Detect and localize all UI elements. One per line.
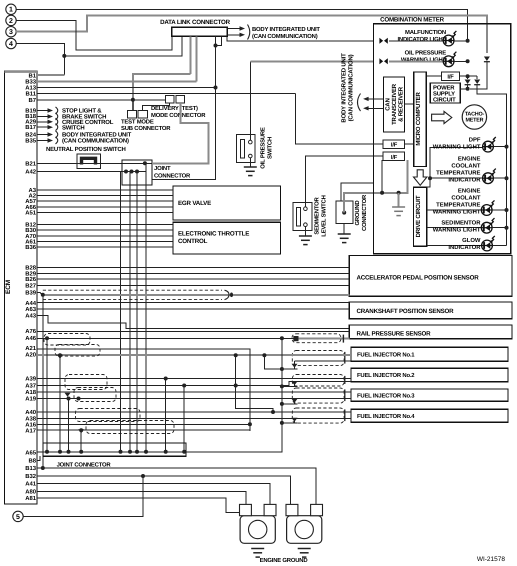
engine ground lug left	[240, 516, 275, 544]
wire A13	[37, 87, 216, 89]
svg-text:ACCELERATOR PEDAL POSITION SEN: ACCELERATOR PEDAL POSITION SENSOR	[357, 275, 480, 282]
svg-text:B13: B13	[25, 465, 37, 472]
svg-text:A51: A51	[25, 210, 37, 217]
fuel injector box No.4	[351, 409, 508, 422]
left shield ovals	[44, 334, 90, 346]
svg-text:SWITCH: SWITCH	[267, 137, 274, 159]
svg-text:SUPPLY: SUPPLY	[433, 90, 455, 97]
svg-text:MICRO COMPUTER: MICRO COMPUTER	[415, 92, 422, 146]
svg-text:I/F: I/F	[447, 74, 454, 81]
node 1	[6, 4, 16, 14]
ground connector	[336, 201, 353, 223]
fuel injector box No.2	[351, 368, 508, 381]
IF2 box	[383, 152, 405, 160]
wire oil switch to meter	[249, 61, 251, 140]
wire B13	[37, 468, 316, 504]
svg-text:5: 5	[16, 514, 20, 521]
svg-text:B24: B24	[25, 132, 37, 139]
CAN left arrows	[367, 98, 383, 100]
svg-text:B27: B27	[25, 283, 37, 290]
wire A81	[37, 498, 240, 513]
wire B7 drop to test connector	[132, 100, 134, 111]
wire A19	[37, 398, 351, 400]
svg-text:A39: A39	[25, 376, 37, 383]
svg-text:(CAN COMMUNICATION): (CAN COMMUNICATION)	[62, 138, 129, 145]
svg-text:SEDIMENTOR: SEDIMENTOR	[314, 196, 321, 234]
gray link DLC to test connector	[133, 74, 191, 111]
wire gc to meter edge	[341, 183, 373, 201]
electronic throttle control box	[173, 222, 281, 254]
svg-text:FUEL INJECTOR No.1: FUEL INJECTOR No.1	[357, 351, 415, 358]
svg-text:INDICATOR: INDICATOR	[448, 177, 481, 184]
svg-text:OIL PRESSURE: OIL PRESSURE	[260, 127, 267, 169]
wire B8	[37, 456, 40, 460]
svg-text:ENGINE: ENGINE	[458, 188, 481, 195]
ECM U1	[5, 71, 38, 504]
wire test to delivery loop	[143, 103, 170, 111]
wire A80	[37, 491, 246, 504]
A21 drop	[37, 349, 250, 431]
wire B30	[37, 229, 173, 231]
svg-text:COOLANT: COOLANT	[451, 163, 481, 170]
wire A51	[37, 212, 173, 214]
svg-text:A44: A44	[25, 300, 37, 307]
svg-text:BODY INTEGRATED UNIT: BODY INTEGRATED UNIT	[252, 26, 320, 33]
shield drain No.4	[282, 422, 298, 424]
wire gc to IF2 gray	[344, 160, 407, 212]
svg-text:COOLANT: COOLANT	[451, 195, 481, 202]
hanging ground gray	[398, 193, 400, 207]
svg-text:A37: A37	[25, 383, 37, 390]
svg-text:COMBINATION METER: COMBINATION METER	[380, 16, 445, 23]
wire B11 to IF1	[296, 94, 384, 144]
wire B11 to IF	[37, 93, 296, 95]
wire B36	[37, 246, 173, 248]
accelerator pedal position sensor	[349, 256, 512, 297]
svg-text:B26: B26	[25, 276, 37, 283]
K-line from DLC to J1	[216, 36, 222, 45]
svg-text:SUB CONNECTOR: SUB CONNECTOR	[121, 125, 171, 132]
wire A17	[37, 429, 250, 431]
diode D2 on wire3	[484, 57, 490, 62]
svg-text:CONTROL: CONTROL	[178, 238, 208, 245]
wire A41	[37, 484, 270, 505]
wire A61	[37, 241, 173, 243]
svg-text:2: 2	[9, 18, 13, 25]
svg-text:A46: A46	[25, 335, 37, 342]
wire A18	[37, 391, 351, 393]
svg-text:DRIVE CIRCUIT: DRIVE CIRCUIT	[415, 195, 422, 237]
svg-text:I/F: I/F	[391, 154, 398, 161]
wire to MIL from DLC	[227, 36, 373, 41]
wire B1	[37, 74, 64, 76]
stop light brake switch arrows B19 B18	[37, 110, 49, 112]
svg-text:TEST MODE: TEST MODE	[121, 119, 154, 126]
svg-text:CAN: CAN	[385, 98, 392, 110]
svg-text:DELIVERY (TEST): DELIVERY (TEST)	[151, 105, 198, 112]
svg-text:A57: A57	[25, 198, 37, 205]
svg-text:TEMPERATURE: TEMPERATURE	[436, 202, 480, 209]
node 5	[13, 511, 23, 521]
wire B26	[37, 278, 349, 280]
wire 2 path	[16, 20, 172, 50]
A20 branch down	[236, 355, 273, 412]
svg-text:FUEL INJECTOR No.3: FUEL INJECTOR No.3	[357, 392, 415, 399]
wire A20 to injector1	[37, 354, 351, 356]
LED bus dots	[505, 145, 509, 149]
diode pair	[468, 75, 478, 77]
wire 5 feed	[23, 476, 143, 516]
svg-text:NEUTRAL POSITION SWITCH: NEUTRAL POSITION SWITCH	[46, 146, 126, 153]
drive circuit box	[414, 187, 427, 246]
svg-text:TEMPERATURE: TEMPERATURE	[436, 170, 480, 177]
delivery test mode connector	[165, 96, 173, 103]
svg-text:INDICATOR: INDICATOR	[448, 244, 481, 251]
svg-text:JOINT: JOINT	[154, 165, 171, 172]
svg-text:B17: B17	[25, 124, 37, 131]
LED warning light labels	[433, 136, 482, 251]
svg-text:B11: B11	[26, 91, 37, 98]
gc branch to IF2 left	[381, 160, 383, 193]
crankshaft position sensor	[349, 302, 512, 319]
svg-text:B36: B36	[25, 244, 37, 251]
rail pressure sensor	[349, 325, 512, 339]
svg-text:WARNING LIGHT: WARNING LIGHT	[401, 56, 447, 63]
svg-text:A65: A65	[25, 450, 37, 457]
svg-text:METER: METER	[465, 118, 483, 124]
sedimentor level switch S3	[293, 203, 312, 231]
oil pressure warning light	[379, 58, 387, 64]
shield drain No.2	[282, 385, 298, 387]
svg-text:RAIL PRESSURE SENSOR: RAIL PRESSURE SENSOR	[357, 331, 432, 338]
wire A39	[37, 378, 351, 380]
wire A38	[37, 418, 351, 420]
ECM pin labels	[25, 72, 37, 502]
svg-text:A76: A76	[25, 328, 37, 335]
wire A43 to rail sensor	[37, 315, 349, 328]
wire A37	[37, 381, 351, 385]
svg-text:FUEL INJECTOR No.2: FUEL INJECTOR No.2	[357, 372, 415, 379]
wire A2	[37, 195, 173, 197]
wire 4 drop to B1	[63, 56, 65, 75]
oil switch ground	[249, 158, 251, 167]
wire 1 to combination meter	[16, 9, 467, 41]
down arrow micro to drive	[414, 170, 427, 186]
svg-text:ELECTRONIC THROTTLE: ELECTRONIC THROTTLE	[178, 231, 249, 238]
sedimentor ground	[304, 227, 306, 237]
svg-text:DPF: DPF	[469, 136, 481, 143]
wire A63	[37, 308, 349, 310]
svg-text:ECM: ECM	[5, 280, 12, 294]
wire B28	[37, 267, 349, 269]
svg-text:B39: B39	[25, 290, 37, 297]
A20 branch to injector shield drain	[265, 355, 282, 369]
svg-text:B32: B32	[25, 473, 37, 480]
injector1 lower wire	[295, 360, 352, 362]
svg-text:A21: A21	[25, 345, 37, 352]
shield drain No.1	[282, 368, 298, 370]
svg-text:A19: A19	[25, 396, 37, 403]
node 3	[6, 27, 16, 37]
ground connector bottom ground	[343, 223, 345, 234]
svg-text:B33: B33	[25, 79, 37, 86]
wire B27	[37, 285, 349, 287]
CAN to micro	[405, 103, 414, 105]
svg-text:INDICATOR LIGHT: INDICATOR LIGHT	[398, 36, 447, 43]
svg-text:BODY INTEGRATED UNIT: BODY INTEGRATED UNIT	[62, 132, 132, 139]
svg-text:STOP LIGHT &: STOP LIGHT &	[62, 108, 102, 115]
test mode sub connector	[127, 111, 136, 118]
B39 shield drain to B13	[42, 295, 44, 468]
svg-text:WARNING LIGHT: WARNING LIGHT	[433, 209, 481, 216]
rail shield wire A46	[293, 336, 298, 341]
shield drain No.3	[282, 403, 298, 405]
IF box top	[442, 72, 460, 80]
svg-text:B30: B30	[25, 227, 37, 234]
wire B32	[37, 476, 291, 504]
svg-text:CIRCUIT: CIRCUIT	[433, 96, 456, 103]
EGR valve box	[173, 186, 281, 220]
svg-text:ENGINE GROUND: ENGINE GROUND	[260, 557, 308, 564]
svg-text:DATA LINK CONNECTOR: DATA LINK CONNECTOR	[160, 19, 231, 26]
node 2	[6, 15, 16, 25]
fuel injector box No.3	[351, 389, 508, 401]
svg-text:LEVEL SWITCH: LEVEL SWITCH	[321, 195, 328, 236]
CAN transceiver box	[384, 77, 405, 132]
svg-text:A42: A42	[25, 169, 37, 176]
svg-text:JOINT CONNECTOR: JOINT CONNECTOR	[57, 462, 112, 469]
svg-text:GROUND: GROUND	[354, 201, 361, 226]
wire A16	[37, 423, 250, 425]
svg-text:B1: B1	[28, 72, 36, 79]
svg-text:EGR VALVE: EGR VALVE	[178, 200, 211, 207]
glow indicator	[427, 245, 482, 247]
shielded wire B39	[43, 294, 350, 296]
wire 3 path	[16, 15, 487, 53]
wire A66	[37, 206, 173, 208]
engine coolant temperature indicator	[428, 176, 432, 180]
wire A40	[37, 411, 351, 413]
wire B21	[37, 162, 122, 164]
svg-text:A18: A18	[25, 389, 37, 396]
svg-text:3: 3	[9, 29, 13, 36]
svg-text:GLOW: GLOW	[462, 237, 481, 244]
wire A44	[37, 302, 349, 304]
wire 4 path	[16, 44, 64, 56]
svg-text:WARNING LIGHT: WARNING LIGHT	[433, 226, 481, 233]
micro computer box	[414, 72, 427, 167]
wire sedimentor to IF2	[305, 156, 383, 207]
joint connector J2	[43, 443, 186, 456]
svg-text:MALFUNCTION: MALFUNCTION	[405, 29, 446, 36]
tacho arrow	[432, 111, 452, 123]
svg-text:B8: B8	[28, 458, 36, 465]
svg-text:POWER: POWER	[433, 84, 455, 91]
node 4	[6, 38, 16, 48]
engine ground lug right	[287, 516, 322, 544]
MIL lamp	[379, 38, 387, 44]
svg-text:4: 4	[9, 41, 13, 48]
svg-text:A20: A20	[25, 352, 37, 359]
wire A3	[37, 189, 173, 191]
DPF warning light	[427, 147, 483, 187]
svg-text:A17: A17	[25, 427, 37, 434]
neutral position switch S1	[77, 154, 101, 168]
svg-text:WI-21578: WI-21578	[477, 556, 506, 563]
wire A46	[37, 337, 293, 339]
svg-text:A41: A41	[25, 481, 37, 488]
svg-text:B7: B7	[28, 97, 36, 104]
svg-text:A63: A63	[25, 306, 37, 313]
injector common bus	[186, 339, 282, 452]
svg-text:SWITCH: SWITCH	[62, 124, 84, 131]
svg-text:A80: A80	[25, 488, 37, 495]
wire B12	[37, 224, 173, 226]
wire B7	[37, 99, 165, 101]
svg-text:B35: B35	[25, 138, 37, 145]
svg-text:A81: A81	[25, 495, 37, 502]
power supply circuit	[430, 83, 460, 103]
wire A70	[37, 235, 173, 237]
svg-text:(CAN COMMUNICATION): (CAN COMMUNICATION)	[348, 54, 355, 121]
svg-text:WARNING LIGHT: WARNING LIGHT	[433, 143, 481, 150]
svg-text:BODY INTEGRATED UNIT: BODY INTEGRATED UNIT	[341, 53, 348, 123]
svg-text:CRANKSHAFT POSITION SENSOR: CRANKSHAFT POSITION SENSOR	[357, 308, 455, 315]
svg-text:SEDIMENTOR: SEDIMENTOR	[441, 219, 481, 226]
oil pressure switch S2	[237, 135, 255, 163]
CAN arrows to body integrated unit	[228, 28, 242, 30]
svg-text:I/F: I/F	[391, 142, 398, 149]
svg-text:TRANSCEIVER: TRANSCEIVER	[391, 83, 398, 125]
svg-text:ENGINE: ENGINE	[458, 156, 481, 163]
svg-text:OIL PRESSURE: OIL PRESSURE	[405, 50, 447, 57]
wire B33 to DLC	[37, 81, 196, 83]
svg-text:A40: A40	[25, 409, 37, 416]
joint connector J1	[122, 160, 152, 185]
wire A42	[37, 171, 122, 173]
J1 drop wires	[120, 172, 122, 452]
DLC pin drops	[190, 36, 192, 74]
wire delivery drop to J1	[152, 103, 209, 164]
fuel injector box No.1	[351, 347, 508, 361]
wire A57	[37, 200, 173, 202]
wire A76	[37, 331, 349, 333]
svg-text:B28: B28	[25, 265, 37, 272]
svg-text:CONNECTOR: CONNECTOR	[361, 194, 368, 231]
svg-text:B21: B21	[25, 161, 37, 168]
wire A65	[37, 451, 186, 453]
svg-text:A43: A43	[25, 313, 37, 320]
svg-text:(CAN COMMUNICATION): (CAN COMMUNICATION)	[252, 33, 318, 40]
svg-text:FUEL INJECTOR No.4: FUEL INJECTOR No.4	[357, 413, 415, 420]
svg-text:& RECEIVER: & RECEIVER	[398, 86, 405, 122]
svg-text:MODE CONNECTOR: MODE CONNECTOR	[151, 112, 206, 119]
tachometer	[462, 105, 486, 129]
svg-text:CONNECTOR: CONNECTOR	[154, 173, 191, 180]
wire B29	[37, 273, 349, 275]
sedimentor warning light	[427, 227, 482, 229]
svg-text:A13: A13	[25, 85, 37, 92]
svg-text:1: 1	[9, 7, 13, 14]
IF1 box	[383, 140, 405, 148]
engine coolant temperature warning light	[427, 209, 482, 211]
